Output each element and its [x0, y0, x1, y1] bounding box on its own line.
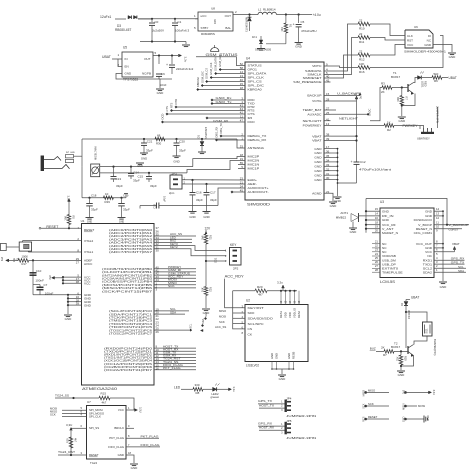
svg-text:2P2: 2P2: [233, 266, 239, 270]
wire SCL2 net: [434, 267, 466, 269]
svg-text:STBY: STBY: [201, 26, 209, 30]
svg-text:GND: GND: [270, 353, 274, 359]
svg-text:GND: GND: [141, 157, 147, 161]
ground for C20: [173, 155, 181, 157]
svg-text:MISO: MISO: [219, 309, 227, 313]
wire AUDIOOUT- stub: [232, 191, 245, 193]
svg-text:XTAL1: XTAL1: [84, 250, 94, 254]
svg-text:GPS_TX: GPS_TX: [451, 261, 465, 265]
wire NETLIGHT riser to R3: [370, 88, 382, 121]
svg-text:UBAT: UBAT: [449, 76, 457, 80]
svg-text:12V: 12V: [205, 226, 212, 230]
svg-text:SIM300D: SIM300D: [247, 203, 271, 207]
svg-text:GND: GND: [398, 119, 406, 123]
svg-text:GND: GND: [119, 220, 125, 223]
wire XTAL1 to crystal: [28, 251, 81, 253]
capacitor C8 crystal load: [1, 243, 7, 250]
svg-text:(SCK/PCINT15)PB7: (SCK/PCINT15)PB7: [102, 289, 153, 293]
wire TEMP_BAT stub: [331, 109, 337, 111]
svg-text:SIM_PRESENCE: SIM_PRESENCE: [293, 80, 321, 84]
LED LED2 green: [213, 387, 217, 391]
svg-text:VRTC: VRTC: [312, 64, 322, 68]
svg-text:MOSI: MOSI: [402, 403, 405, 410]
node arrow tap: [201, 329, 204, 331]
wire risers from SIM300D SIM pins to resistors: [340, 24, 358, 71]
ground for T1: [398, 116, 406, 118]
svg-text:L1 RLB0914: L1 RLB0914: [258, 8, 276, 12]
capacitor C6 10nF on FB: [158, 56, 160, 65]
svg-text:10K: 10K: [201, 287, 205, 292]
svg-text:3u3: 3u3: [49, 275, 52, 280]
diode D3 RB080-45T dual schottky: [128, 16, 131, 19]
svg-text:CS: CS: [248, 327, 253, 331]
svg-text:AGND: AGND: [312, 191, 322, 195]
wire SCK to U7: [62, 416, 87, 418]
svg-text:GND: GND: [314, 151, 322, 155]
svg-text:68: 68: [157, 134, 161, 138]
wire DCD with rotated label: [163, 121, 246, 123]
svg-text:33pF: 33pF: [210, 198, 217, 202]
wires GSM SPI fan with rotated net labels: [220, 69, 245, 71]
wire MIC1N stub: [238, 164, 245, 166]
wire buzzer to T2 collector: [414, 336, 427, 345]
wire ground return under C0 C1: [140, 41, 186, 43]
wire MOSI to U7: [62, 409, 87, 411]
svg-text:27: 27: [76, 260, 80, 264]
ground for C16: [189, 211, 197, 213]
wire EAR- from 2P3: [182, 183, 245, 185]
wire VCC bus: [63, 276, 82, 278]
resistor R6 5k6: [432, 76, 442, 80]
svg-text:2pin: 2pin: [169, 191, 175, 195]
svg-text:PKT_FLAG: PKT_FLAG: [163, 366, 181, 370]
svg-text:BAL: BAL: [225, 26, 231, 30]
wire LED from PA3: [154, 238, 192, 240]
svg-text:1K1: 1K1: [280, 26, 284, 31]
wire V_BACKUP top rail: [366, 199, 447, 225]
node 3.3V arrow at U5 out: [179, 54, 182, 57]
svg-text:D1: D1: [197, 134, 201, 138]
capacitor C14 33pF mic filter: [130, 166, 132, 168]
svg-text:GSM_G01: GSM_G01: [218, 54, 222, 67]
capacitor C13 33pF mic filter: [112, 166, 114, 168]
svg-text:JUMPER-3PIN: JUMPER-3PIN: [286, 414, 316, 418]
svg-text:VDD: VDD: [288, 312, 292, 318]
wire R8 to LED2: [203, 388, 213, 390]
svg-text:RESET: RESET: [89, 453, 99, 457]
svg-text:GND: GND: [87, 220, 93, 223]
svg-text:+: +: [351, 160, 353, 164]
svg-text:33K: 33K: [397, 356, 400, 361]
wire KEY3 from PA5: [154, 246, 226, 251]
svg-text:GND: GND: [157, 91, 165, 95]
svg-text:33pF: 33pF: [91, 208, 98, 212]
svg-text:PKT_FLAG: PKT_FLAG: [141, 435, 160, 439]
svg-text:SPI_SS: SPI_SS: [89, 426, 99, 430]
wire VCC_OUT stub: [434, 243, 443, 245]
svg-text:RES2: RES2: [297, 310, 301, 318]
pin stubs U6 left: [399, 35, 405, 37]
svg-text:GND: GND: [131, 466, 139, 470]
wire AUXADC tap: [331, 113, 369, 115]
wire R15 to VCC riser: [110, 398, 134, 410]
svg-text:U8: U8: [211, 7, 215, 11]
wire GSM_RX with label: [212, 99, 245, 101]
svg-text:1N4148: 1N4148: [408, 310, 411, 319]
svg-text:GND: GND: [382, 218, 390, 222]
svg-text:BRCLK: BRCLK: [114, 426, 124, 430]
svg-text:LCM-5S: LCM-5S: [380, 280, 395, 284]
node AREF arrow left: [6, 259, 9, 262]
svg-text:KEY2: KEY2: [170, 245, 178, 249]
node junction +4V B: [298, 13, 300, 15]
resistor R1 1K1 vertical: [284, 23, 288, 33]
svg-text:GND: GND: [275, 353, 279, 359]
wire BUZ from PA4: [154, 241, 192, 243]
resistor R18 33K: [400, 351, 402, 355]
accelerometer U2 LIS3LV02 body: [245, 305, 308, 362]
ground for U7: [130, 463, 138, 465]
GSM module U4 SIM300D body: [245, 62, 324, 200]
svg-text:220uFx6.3v2: 220uFx6.3v2: [176, 67, 194, 71]
svg-text:R10: R10: [359, 27, 365, 31]
ground for C18 above U1: [86, 217, 94, 219]
node 3.3V arrow at LED2: [229, 388, 232, 391]
wire TG24_SS: [55, 397, 99, 399]
svg-text:3,3u: 3,3u: [277, 280, 283, 284]
svg-text:470uFx10U/tant: 470uFx10U/tant: [359, 168, 391, 172]
wire R7 to T2 base: [394, 350, 408, 352]
svg-text:GND: GND: [440, 285, 448, 289]
svg-text:SCK: SCK: [363, 403, 366, 408]
svg-text:1K1: 1K1: [252, 35, 257, 39]
wire SCK to U2 SCL: [233, 323, 245, 325]
resistor R7 33K base pulldown: [401, 88, 403, 96]
svg-text:GND: GND: [70, 152, 75, 154]
wire C12 to ground bus: [338, 182, 357, 184]
ground for TVS: [257, 48, 265, 50]
svg-text:TG24_SS: TG24_SS: [55, 393, 69, 397]
svg-text:C7: C7: [44, 283, 48, 287]
svg-text:3u3: 3u3: [1, 256, 4, 261]
svg-text:RES1: RES1: [279, 310, 283, 318]
svg-text:3,3v: 3,3v: [184, 57, 188, 63]
wire mic to MIC2P pin: [193, 157, 245, 167]
svg-text:SCL: SCL: [204, 311, 208, 317]
svg-text:MIC1P: MIC1P: [248, 167, 260, 171]
svg-text:GND: GND: [287, 353, 291, 359]
svg-text:R3: R3: [381, 82, 385, 86]
svg-text:GND: GND: [424, 43, 432, 47]
svg-text:SDA: SDA: [458, 269, 464, 273]
node backup arrow: [359, 93, 361, 96]
svg-text:PWRKEY: PWRKEY: [403, 124, 419, 128]
wire VCHG to +4V rail: [331, 100, 357, 102]
svg-text:3,3U: 3,3U: [66, 423, 72, 427]
wire GPS_TX net: [434, 263, 465, 265]
svg-text:JUMPER-3PIN: JUMPER-3PIN: [286, 436, 316, 440]
microphone MIC1 MIC6L7MM: [91, 164, 100, 177]
capacitor C18 33pF bias: [88, 197, 90, 199]
ground for U4 GND bus: [334, 196, 342, 198]
wire GPS_RX net: [434, 259, 465, 261]
wire ANT1 to RF_IN: [359, 215, 381, 217]
capacitor C12 470uFx10V tant: [354, 161, 360, 163]
wire mic bias rail: [82, 197, 126, 199]
ground for U6: [448, 52, 456, 54]
svg-text:C10: C10: [36, 269, 42, 273]
svg-text:GSM_D/C: GSM_D/C: [200, 71, 204, 83]
svg-text:4k7: 4k7: [74, 438, 77, 443]
svg-text:GND: GND: [189, 215, 195, 219]
svg-text:GND: GND: [402, 416, 405, 422]
wire HOST_TX to JP4: [259, 407, 285, 409]
svg-text:SCK: SCK: [368, 402, 374, 406]
svg-text:10nF: 10nF: [160, 83, 167, 87]
svg-text:+: +: [166, 63, 168, 67]
svg-text:GD1: GD1: [214, 257, 218, 263]
svg-text:2K: 2K: [381, 90, 385, 94]
ground for C14: [136, 162, 144, 164]
svg-text:R7: R7: [405, 97, 409, 101]
capacitor C15 33pF mic filter: [148, 172, 150, 174]
svg-text:BACKUP: BACKUP: [307, 94, 321, 98]
svg-text:GND: GND: [427, 415, 430, 421]
svg-text:MOSI: MOSI: [219, 315, 226, 319]
svg-text:C18: C18: [91, 193, 97, 197]
svg-text:UBAT: UBAT: [411, 296, 419, 300]
jumper JP6 UBAT powerkey 3pin: [419, 126, 421, 130]
wire U7 VCC to 3.3V: [126, 409, 134, 411]
svg-text:MOSI: MOSI: [418, 404, 425, 408]
node SDA tap near accelerometer: [201, 324, 203, 326]
node 3.3V arrow U7 VCC: [135, 409, 138, 412]
diode D4 MBRS340T3 catch diode: [249, 15, 251, 18]
svg-text:SDA2: SDA2: [423, 270, 433, 274]
svg-text:GND: GND: [295, 45, 303, 49]
wire R3 to T1 base: [392, 87, 408, 89]
svg-text:470uFx25U: 470uFx25U: [301, 29, 317, 33]
svg-text:HOST_RX: HOST_RX: [259, 426, 274, 430]
svg-text:ACC_RDY: ACC_RDY: [225, 275, 245, 279]
svg-text:R30: R30: [156, 142, 162, 146]
svg-text:DTR: DTR: [174, 99, 178, 105]
svg-text:GND: GND: [203, 215, 209, 219]
wire MOSI to U2 SDA: [233, 317, 245, 319]
svg-text:C12: C12: [360, 160, 366, 164]
svg-text:22: 22: [359, 19, 363, 23]
node junction C1: [174, 18, 176, 20]
resistor R22 10K divider bottom: [204, 286, 208, 295]
svg-text:(OC2A/PCINT31)PD7: (OC2A/PCINT31)PD7: [104, 368, 153, 372]
node 3.3V arrow VCC: [52, 276, 55, 279]
svg-text:MBRS340T3: MBRS340T3: [245, 17, 249, 32]
svg-text:GND: GND: [84, 303, 92, 307]
wire AUDIOOUT+ to C22: [218, 188, 245, 206]
wire POWERKEY to R2: [331, 125, 385, 127]
svg-text:CFG_COM1: CFG_COM1: [414, 231, 433, 235]
wire LED to R8: [181, 388, 193, 390]
svg-text:KEY: KEY: [230, 243, 237, 247]
svg-text:R17: R17: [22, 262, 28, 266]
svg-text:GND: GND: [330, 204, 338, 208]
svg-text:GND: GND: [279, 377, 287, 381]
svg-text:100uFx6.3: 100uFx6.3: [175, 29, 190, 33]
node VBAT arrow top: [355, 96, 358, 99]
node ISP SCK pad: [364, 405, 367, 408]
wire SDA2 net: [434, 271, 466, 273]
GPS module U3 LCM-SS body: [380, 208, 434, 278]
svg-text:BUZ: BUZ: [370, 347, 376, 351]
wire GPS_TX to JP4: [258, 403, 285, 405]
net GSM_STATUS label and arc symbol: [211, 48, 219, 52]
resistor R3 2K base resistor: [382, 86, 392, 90]
regulator U5 TPS79533: [122, 52, 153, 77]
TVS diode D1 ESDA6V1 on antenna: [201, 138, 203, 140]
svg-text:SPI_CLK: SPI_CLK: [89, 414, 101, 418]
svg-text:C5: C5: [301, 20, 305, 24]
resistor R13 10K pullup: [358, 66, 370, 70]
wire BACKUP net: [331, 95, 361, 97]
svg-text:ATMEGA3240: ATMEGA3240: [82, 387, 117, 391]
wire 3.3V bias vertical to reset pullup: [68, 199, 70, 216]
resistor R21 5k6 divider top: [204, 234, 208, 244]
svg-text:+4.0u: +4.0u: [313, 13, 321, 17]
wire mic outputs: [100, 166, 193, 168]
svg-text:FIFO_FLAG: FIFO_FLAG: [108, 445, 124, 449]
svg-text:AUXADC: AUXADC: [307, 113, 322, 117]
wires DTR RTS CTS with rotated labels: [176, 106, 245, 108]
svg-text:DCD: DCD: [248, 120, 256, 124]
ground for U5 caps: [160, 78, 172, 80]
node junction C0: [151, 18, 153, 20]
svg-text:12uFx1: 12uFx1: [100, 15, 111, 19]
wire antenna to U4 pin: [237, 139, 245, 148]
svg-text:CTS: CTS: [165, 106, 169, 112]
svg-text:U6: U6: [414, 25, 418, 29]
svg-text:VBAT: VBAT: [452, 242, 460, 246]
ground for ANT1: [349, 227, 357, 229]
svg-text:DBG_TX: DBG_TX: [219, 123, 223, 134]
svg-text:BC817: BC817: [391, 345, 401, 349]
svg-text:R19: R19: [67, 438, 70, 443]
svg-text:OUT: OUT: [225, 14, 232, 18]
node junction +4V A: [285, 13, 287, 15]
resistor R8 330: [193, 388, 203, 392]
wire R20 to VDD rail: [233, 290, 255, 292]
svg-text:33pF: 33pF: [179, 149, 186, 153]
U3 lower left pin stubs: [372, 243, 380, 245]
capacitor C22 10uF audio coupling: [140, 205, 157, 207]
node SCL tap near accelerometer: [204, 317, 206, 319]
power module U8 DC-DC converter: [198, 12, 233, 31]
wire EAR+ from 2P3: [182, 179, 245, 181]
wire U3 right ground bus: [442, 211, 444, 281]
svg-text:AVCC: AVCC: [84, 262, 93, 266]
wire HOST_RX to JP5: [259, 429, 285, 431]
resistor R7 2K base: [384, 350, 394, 354]
svg-text:GND: GND: [449, 55, 457, 59]
U1 port B labelled nets: [154, 268, 196, 270]
wire MISO to U7: [62, 412, 87, 414]
svg-text:HOST_TX: HOST_TX: [259, 403, 274, 407]
svg-text:RTS: RTS: [170, 102, 174, 108]
capacitor C0 2u2u50V: [151, 19, 153, 22]
svg-text:R8: R8: [196, 391, 200, 395]
wire resistor outputs to SIM holder: [370, 24, 399, 36]
wire AVCC vertical to caps: [32, 260, 34, 294]
svg-text:TG24_RST: TG24_RST: [58, 450, 75, 454]
svg-text:greeen: greeen: [211, 395, 220, 399]
svg-text:MADET_N: MADET_N: [382, 231, 398, 235]
node VBAT arrow: [453, 247, 456, 250]
audio jack J1: [41, 156, 44, 172]
wire RI with GSM_RI label: [207, 117, 245, 119]
svg-text:IN: IN: [125, 57, 128, 61]
svg-text:ACC_SS: ACC_SS: [215, 325, 226, 329]
ground for C19 above U1: [118, 217, 126, 219]
svg-text:330: 330: [195, 383, 200, 387]
node ISP MOSI pad: [404, 405, 407, 408]
node ISP RESET pad: [364, 418, 367, 421]
wire ACC_SS from PA2: [154, 235, 196, 237]
svg-text:PKT_FLAG: PKT_FLAG: [109, 436, 125, 440]
svg-text:R6: R6: [434, 79, 438, 83]
svg-text:KBR0A0: KBR0A0: [196, 76, 200, 87]
svg-text:3v3: 3v3: [402, 389, 405, 394]
svg-text:ESDA6V1: ESDA6V1: [204, 127, 208, 139]
wire 12VEXT to D3: [115, 18, 125, 20]
svg-text:3,3U: 3,3U: [139, 407, 143, 413]
svg-text:33pF: 33pF: [133, 179, 140, 183]
svg-text:GND: GND: [314, 160, 322, 164]
svg-text:V_BACKUP: V_BACKUP: [449, 223, 469, 227]
svg-text:VCC: VCC: [84, 282, 91, 286]
wire R6 to UBAT: [442, 77, 448, 79]
svg-text:R0M4R5S: R0M4R5S: [201, 32, 215, 36]
ground for C17: [203, 211, 211, 213]
svg-text:TG24: TG24: [90, 461, 97, 465]
U2 top pin stubs: [280, 291, 282, 305]
wire GSM_TX with label: [212, 103, 245, 105]
svg-text:G3RST: G3RST: [449, 228, 459, 232]
ground for D1: [198, 151, 206, 153]
buzzer SG1: [423, 322, 433, 336]
svg-text:R15: R15: [101, 392, 107, 396]
svg-text:VDD: VDD: [284, 312, 288, 318]
svg-text:R5: R5: [72, 216, 76, 220]
svg-text:GSM_CS: GSM_CS: [205, 68, 209, 79]
wire GSM ground bus: [337, 149, 339, 196]
wire T2 emitter to ground: [401, 356, 414, 367]
svg-text:20: 20: [375, 229, 379, 233]
wire TG24_RST to U7 RESET: [58, 454, 87, 456]
svg-text:UBAT: UBAT: [102, 55, 111, 59]
svg-text:SDA: SDA: [201, 318, 205, 324]
svg-text:LIS3LV02: LIS3LV02: [246, 364, 259, 368]
svg-text:100nF: 100nF: [35, 278, 44, 282]
svg-text:POWERKEY: POWERKEY: [303, 124, 322, 128]
TVS diode D5 SMAJ23A: [259, 40, 263, 44]
svg-text:3.3U: 3.3U: [432, 390, 435, 395]
svg-text:(TOSC2/PCINT23)PC7: (TOSC2/PCINT23)PC7: [109, 332, 153, 336]
svg-text:C15: C15: [137, 175, 143, 179]
svg-text:GND: GND: [314, 165, 322, 169]
svg-text:JUMPER-3PIN: JUMPER-3PIN: [436, 106, 440, 123]
wire ACC_SS to U2 CS: [233, 291, 245, 329]
svg-text:R22: R22: [209, 287, 213, 292]
svg-text:RST: RST: [407, 39, 413, 43]
